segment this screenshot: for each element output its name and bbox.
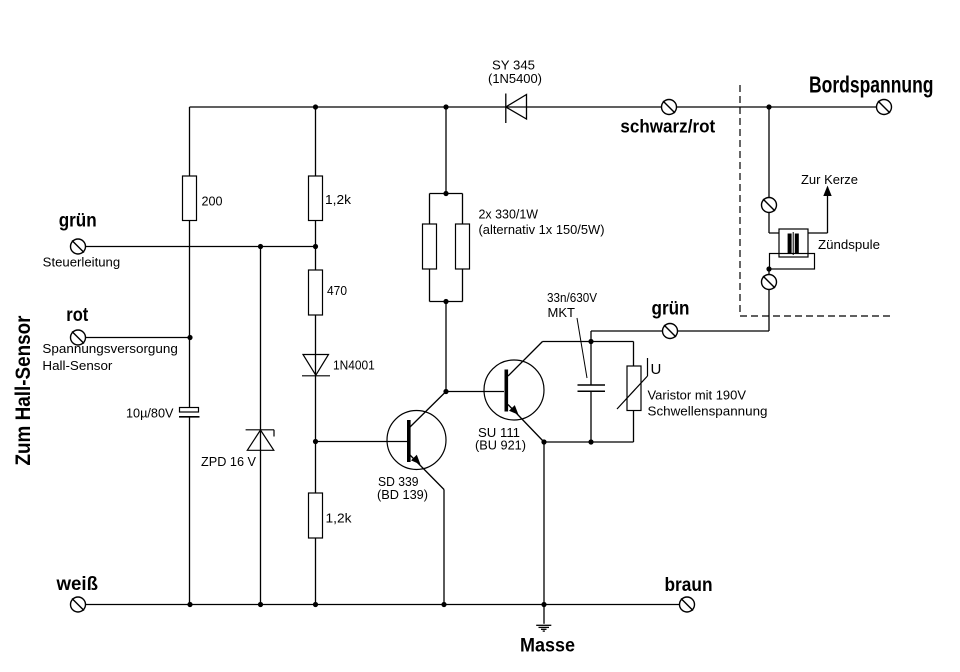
wire base Q2	[446, 391, 504, 393]
varistor box	[627, 366, 641, 411]
svg-text:470: 470	[327, 283, 347, 298]
terminal rot	[71, 330, 86, 345]
transistor Q2 emitter	[508, 405, 544, 443]
transistor Q1 emitter arrow	[411, 455, 421, 465]
wire gruen control line	[86, 246, 316, 248]
svg-text:1,2k: 1,2k	[325, 192, 352, 207]
ignition coil core bar right	[795, 234, 799, 255]
resistor 200	[183, 176, 197, 221]
svg-text:(BD 139): (BD 139)	[377, 487, 428, 502]
transistor Q1 collector	[410, 392, 446, 428]
wire coil feed vertical	[769, 107, 779, 233]
svg-text:rot: rot	[66, 305, 89, 326]
junction node top bus at coil feed	[766, 104, 771, 109]
junction node bottom at left rail	[187, 602, 192, 607]
resistor 330 right	[456, 224, 470, 269]
junction node emitter Q2	[541, 439, 546, 444]
junction node rot at rail	[187, 335, 192, 340]
svg-text:ZPD 16 V: ZPD 16 V	[201, 454, 256, 469]
resistor 1,2k upper	[309, 176, 323, 221]
wire collector resistor branch top	[445, 107, 447, 194]
junction node collector Q1	[443, 389, 448, 394]
wire zener branch vertical	[260, 247, 262, 605]
terminal weiss	[71, 597, 86, 612]
svg-text:schwarz/rot: schwarz/rot	[620, 115, 715, 136]
junction node gruen at zener	[258, 244, 263, 249]
svg-text:2x 330/1W: 2x 330/1W	[479, 206, 539, 221]
terminal schwarz/rot	[662, 100, 677, 115]
junction node bottom at emitter Q1	[441, 602, 446, 607]
svg-text:braun: braun	[665, 574, 713, 596]
wire to spark plug	[808, 191, 828, 233]
diode 1N4001	[302, 355, 330, 376]
svg-text:1,2k: 1,2k	[326, 511, 353, 526]
transistor Q1 SD339 circle	[387, 411, 446, 470]
junction node emitter rail cap	[588, 439, 593, 444]
wire parallel resistor loop	[430, 194, 463, 302]
ignition coil secondary box	[770, 254, 815, 270]
junction node resistor pair top	[443, 191, 448, 196]
svg-text:grün: grün	[59, 211, 97, 232]
junction node bottom at zener	[258, 602, 263, 607]
ignition coil primary box	[779, 229, 808, 257]
svg-text:33n/630V: 33n/630V	[547, 290, 597, 305]
junction node collector rail cap	[588, 339, 593, 344]
svg-text:MKT: MKT	[548, 305, 576, 320]
svg-text:grün: grün	[652, 298, 690, 319]
wire capacitor branch	[590, 331, 592, 442]
junction node top bus at divider	[313, 104, 318, 109]
label leader line MKT	[577, 318, 587, 378]
wire emitter Q1 drop	[443, 490, 445, 605]
svg-text:Hall-Sensor: Hall-Sensor	[42, 358, 113, 373]
svg-text:Zum Hall-Sensor: Zum Hall-Sensor	[12, 316, 35, 466]
transistor Q2 base bar	[505, 370, 509, 412]
junction node gruen at divider	[313, 244, 318, 249]
svg-text:(1N5400): (1N5400)	[488, 71, 542, 86]
diode SY345	[506, 94, 527, 124]
dashed separator	[740, 85, 894, 316]
terminal coil bottom	[762, 275, 777, 290]
varistor diagonal	[617, 358, 648, 409]
capacitor 10u/80V	[179, 408, 200, 417]
junction node top bus at collector branch	[443, 104, 448, 109]
wire collector rail to varistor	[543, 342, 634, 367]
transistor Q2 SU111 circle	[484, 360, 544, 420]
junction node bottom at divider	[313, 602, 318, 607]
wire top bus	[190, 106, 883, 108]
svg-text:1N4001: 1N4001	[333, 358, 375, 373]
junction node resistor pair bottom	[443, 299, 448, 304]
junction node bottom at ground	[541, 602, 546, 607]
ground symbol Masse	[536, 605, 551, 632]
svg-text:weiß: weiß	[56, 574, 99, 595]
svg-text:Zur Kerze: Zur Kerze	[801, 172, 858, 187]
ignition coil core bar left	[788, 234, 792, 255]
svg-text:Varistor mit 190V: Varistor mit 190V	[648, 388, 747, 403]
svg-text:(BU 921): (BU 921)	[475, 438, 526, 453]
terminal Bordspannung	[877, 100, 892, 115]
svg-text:(alternativ 1x 150/5W): (alternativ 1x 150/5W)	[479, 222, 605, 237]
svg-text:Spannungsversorgung: Spannungsversorgung	[42, 341, 178, 356]
transistor Q1 emitter	[410, 455, 444, 490]
wire collector node vertical	[445, 302, 447, 392]
resistor 330 left	[423, 224, 437, 269]
svg-text:U: U	[651, 361, 662, 378]
wire bottom ground bus	[86, 604, 681, 606]
wire base Q1	[316, 441, 408, 443]
terminal gruen left	[71, 239, 86, 254]
terminal coil top	[762, 198, 777, 213]
ignition coil core centre line	[792, 232, 794, 255]
wire left vertical (Hall supply rail)	[189, 107, 191, 605]
resistor 1,2k lower	[309, 493, 323, 538]
zener diode ZPD16V	[246, 430, 274, 451]
terminal gruen right	[663, 324, 678, 339]
junction node coil secondary	[766, 266, 771, 271]
transistor Q2 collector	[508, 342, 543, 377]
capacitor 33n plates	[578, 385, 606, 391]
terminal braun	[680, 597, 695, 612]
wire gruen output line	[591, 269, 769, 331]
wire second vertical (divider rail)	[315, 107, 317, 605]
resistor 470	[309, 270, 323, 315]
svg-text:Masse: Masse	[520, 635, 575, 657]
junction node base Q1	[313, 439, 318, 444]
wire rot supply line	[86, 337, 191, 339]
svg-text:Bordspannung: Bordspannung	[809, 72, 934, 98]
transistor Q1 base bar	[407, 420, 411, 462]
wire emitter Q2 drop	[543, 442, 545, 605]
svg-text:10µ/80V: 10µ/80V	[126, 405, 174, 420]
svg-text:Steuerleitung: Steuerleitung	[43, 255, 121, 270]
wire emitter rail to varistor	[544, 411, 634, 443]
svg-text:Schwellenspannung: Schwellenspannung	[648, 403, 768, 418]
svg-text:200: 200	[202, 193, 223, 208]
svg-text:Zündspule: Zündspule	[818, 237, 880, 252]
transistor Q2 emitter arrow	[509, 405, 519, 415]
arrow to spark plug	[823, 186, 831, 197]
